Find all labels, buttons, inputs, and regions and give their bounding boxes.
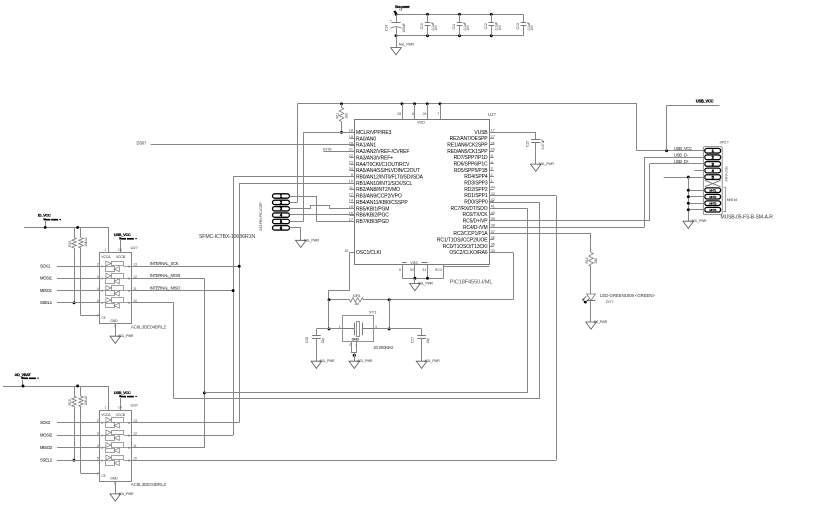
wire U3 SCK2 output	[132, 422, 240, 424]
resistor R21 1M	[350, 297, 364, 304]
svg-text:A: A	[101, 289, 103, 293]
svg-text:A: A	[101, 433, 103, 437]
svg-text:MOSI1: MOSI1	[40, 276, 53, 281]
wire U3 MISO2 output	[132, 447, 205, 449]
wire crystal pin1 vertical	[328, 300, 330, 329]
svg-text:AGL_PWR: AGL_PWR	[118, 492, 134, 496]
wire R13 to SSEL2	[74, 407, 76, 461]
svg-text:VCCB: VCCB	[116, 413, 126, 417]
node rail junctions	[395, 13, 398, 16]
svg-text:AGL_PWR: AGL_PWR	[691, 219, 707, 223]
svg-text:100uF: 100uF	[402, 23, 406, 32]
svg-text:RD2/SPP2: RD2/SPP2	[464, 187, 488, 193]
connector J1 ICSP 6-pin header	[273, 194, 290, 231]
capacitor C17 load cap right	[421, 329, 423, 335]
capacitor C10 0.1uF	[427, 14, 429, 23]
pins U1 VSS bottom stubs	[399, 261, 489, 279]
svg-text:RE1/AN6/CK2SPP: RE1/AN6/CK2SPP	[447, 143, 488, 149]
resistor R12 10K pullup	[74, 227, 76, 237]
svg-text:C10: C10	[420, 23, 424, 29]
svg-text:AC8L3DE04BRLZ: AC8L3DE04BRLZ	[131, 482, 167, 487]
wire USB D- to RC4	[644, 157, 704, 159]
wire U2 outputs INTERNAL_MISO	[132, 290, 233, 292]
ground C15	[531, 164, 542, 171]
svg-text:U3?: U3?	[131, 403, 139, 408]
connector JP2 MNT bracket	[723, 187, 725, 211]
svg-text:RD7/SPP7/P1D: RD7/SPP7/P1D	[454, 155, 488, 161]
wire R12 to SSEL1	[74, 248, 76, 303]
crystal XY1 box	[343, 316, 374, 342]
resistor R1 10k MCLR pullup	[340, 102, 343, 105]
ground U3	[115, 481, 117, 494]
svg-text:VUSB: VUSB	[474, 130, 488, 136]
wire J1 pin3 to RB5 with jog	[290, 206, 355, 209]
wire crystal pin3 vertical	[389, 300, 391, 329]
svg-text:330: 330	[594, 258, 598, 264]
pins U2 input/output numbers	[97, 263, 137, 306]
svg-text:C11: C11	[452, 23, 456, 29]
wire U2 SSEL1 output	[132, 302, 174, 304]
svg-text:3: 3	[491, 167, 493, 171]
svg-text:AGL_PWR: AGL_PWR	[357, 359, 373, 363]
svg-text:B: B	[128, 265, 130, 269]
wire J1 pin4 to RB6	[290, 214, 355, 216]
svg-text:31: 31	[422, 268, 426, 272]
svg-text:VSS: VSS	[410, 261, 418, 265]
svg-text:OSC1/CLKI: OSC1/CLKI	[356, 250, 381, 256]
svg-text:B: B	[128, 433, 130, 437]
svg-text:1M: 1M	[354, 302, 359, 306]
svg-text:OSC2/CLKO/RA6: OSC2/CLKO/RA6	[449, 250, 488, 256]
svg-text:B: B	[128, 277, 130, 281]
svg-text:6: 6	[399, 268, 401, 272]
svg-text:RD6/SPP6/P1C: RD6/SPP6/P1C	[454, 162, 488, 168]
capacitor C14 100uF polarized	[396, 14, 398, 23]
svg-text:7: 7	[437, 112, 439, 116]
svg-text:RB0/AN12/INT0/FLT0/SDI/SDA: RB0/AN12/INT0/FLT0/SDI/SDA	[356, 174, 424, 180]
svg-text:C14: C14	[384, 25, 388, 31]
svg-text:C17: C17	[410, 337, 414, 343]
svg-text:R11: R11	[336, 113, 340, 119]
ground top cap bank	[396, 36, 398, 48]
svg-text:B: B	[128, 289, 130, 293]
svg-text:OE: OE	[101, 474, 106, 478]
svg-text:SSEL1: SSEL1	[40, 300, 53, 305]
svg-text:RD3/SPP3: RD3/SPP3	[464, 181, 488, 187]
connector JP2 mount pins	[705, 188, 721, 212]
svg-text:12: 12	[349, 192, 353, 196]
svg-text:B: B	[128, 446, 130, 450]
power net USB_VCC label at connector	[666, 106, 668, 151]
wire top cap bank ground rail	[396, 35, 523, 37]
wire MOSI bus U2 to RC7	[204, 278, 206, 447]
svg-text:RC3: RC3	[435, 268, 442, 272]
node USB_VCC junction	[665, 149, 668, 152]
svg-text:MINI-USB: MINI-USB	[725, 166, 729, 182]
svg-text:10: 10	[349, 180, 353, 184]
svg-text:30: 30	[410, 268, 414, 272]
svg-text:USB_VCC: USB_VCC	[114, 232, 131, 237]
svg-text:B: B	[128, 301, 130, 305]
connector JP2 mini-USB outline	[703, 147, 722, 215]
svg-text:AGL_PWR: AGL_PWR	[399, 42, 415, 46]
svg-text:RB5/KBI1/PGM: RB5/KBI1/PGM	[356, 206, 389, 212]
svg-text:RA1/AN1: RA1/AN1	[356, 143, 376, 149]
wire USB pin5 ground net	[664, 177, 705, 179]
wires U2 input stubs	[40, 264, 100, 306]
svg-text:7: 7	[97, 314, 99, 318]
op-amp U1 PIC18F4550 microcontroller box	[355, 120, 490, 265]
svg-text:36: 36	[491, 236, 495, 240]
svg-text:12: 12	[133, 432, 137, 436]
wire U3 MOSI2 output	[132, 435, 233, 437]
svg-text:4: 4	[491, 160, 493, 164]
svg-text:DS_PWR: DS_PWR	[594, 320, 608, 324]
svg-text:RA3/AN3/VREF+: RA3/AN3/VREF+	[356, 155, 393, 161]
crystal symbol	[342, 328, 354, 330]
svg-text:10Kx2: 10Kx2	[84, 396, 88, 405]
svg-text:RB7/KBI3/PGD: RB7/KBI3/PGD	[356, 219, 389, 225]
svg-text:USB_D-: USB_D-	[674, 153, 689, 158]
svg-text:C15: C15	[526, 141, 530, 147]
svg-text:MNT3: MNT3	[709, 201, 716, 205]
svg-text:AGL_PWR: AGL_PWR	[118, 334, 134, 338]
svg-text:GND: GND	[110, 319, 118, 323]
wires U3 input stubs	[40, 420, 100, 463]
wire main VDD rail USB_VCC	[297, 103, 637, 105]
svg-text:25: 25	[491, 148, 495, 152]
svg-text:X2R1: X2R1	[352, 294, 360, 298]
svg-text:MISO2: MISO2	[40, 445, 53, 450]
svg-text:RC5/D+/VP: RC5/D+/VP	[463, 219, 489, 225]
svg-text:RC1/T1OSI/CCP2/UOE: RC1/T1OSI/CCP2/UOE	[437, 238, 488, 244]
svg-text:15p: 15p	[321, 338, 325, 344]
svg-text:GND: GND	[110, 477, 118, 481]
svg-text:PIC18F4550-I/ML: PIC18F4550-I/ML	[450, 279, 493, 285]
wire R15 to U2 OE	[80, 248, 82, 316]
op-amp U2 buffer symbols	[100, 261, 132, 308]
svg-text:7: 7	[97, 472, 99, 476]
svg-text:SSEL2: SSEL2	[40, 458, 53, 463]
svg-text:26: 26	[491, 141, 495, 145]
svg-text:20.000MHz: 20.000MHz	[374, 345, 394, 350]
svg-text:SFMC-ICTBX-106B6R1N: SFMC-ICTBX-106B6R1N	[199, 234, 255, 240]
ground crystal	[349, 361, 360, 368]
capacitor C11 0.1uF	[459, 14, 461, 23]
svg-text:38: 38	[491, 224, 495, 228]
op-amp U2 level shifter box	[100, 253, 132, 324]
svg-text:SCK1: SCK1	[40, 264, 51, 269]
svg-text:MCLR/VPP/RE3: MCLR/VPP/RE3	[356, 130, 392, 136]
svg-text:U1?: U1?	[488, 112, 496, 117]
svg-text:RD5/SPP5/P1B: RD5/SPP5/P1B	[454, 168, 488, 174]
svg-text:AGL_PWR: AGL_PWR	[304, 238, 320, 242]
wire RC2 to LED resistor	[489, 233, 591, 235]
svg-text:5: 5	[491, 154, 493, 158]
wire R16 to U3 OE	[80, 407, 82, 474]
svg-text:40: 40	[491, 211, 495, 215]
wire RA2 net INTB	[324, 151, 355, 153]
svg-text:DS0?: DS0?	[137, 141, 148, 146]
svg-text:MNTx4: MNTx4	[727, 198, 737, 202]
svg-text:A: A	[101, 446, 103, 450]
wire RB0 SDI bus	[233, 176, 354, 178]
wire rail drop to USB connector pin1	[636, 104, 638, 151]
wire OSC2 to crystal rail	[489, 252, 513, 254]
svg-text:15p: 15p	[426, 338, 430, 344]
wire top cap bank rail VBUS	[396, 14, 523, 16]
wire J1 pin6 to ground	[290, 227, 301, 229]
svg-text:A: A	[101, 421, 103, 425]
svg-text:VCCA: VCCA	[101, 413, 111, 417]
svg-text:R13: R13	[68, 399, 72, 405]
wire ID_VCC rail	[24, 227, 109, 229]
resistor R13 10K pullup	[74, 386, 76, 396]
svg-text:1: 1	[491, 179, 493, 183]
svg-text:AGL_PWR: AGL_PWR	[418, 282, 434, 286]
wire OSC1 dogleg	[329, 253, 350, 300]
wire MCLR to J1 pin5	[304, 132, 355, 134]
wire USB D+ to RC5	[650, 163, 705, 165]
svg-text:RC6/TX/CK: RC6/TX/CK	[462, 212, 488, 218]
svg-text:U2?: U2?	[131, 245, 139, 250]
wire USB_VCC to U2 VCCB	[120, 247, 122, 253]
svg-text:OE: OE	[101, 316, 106, 320]
svg-text:R14: R14	[585, 257, 589, 263]
svg-text:10k: 10k	[345, 113, 349, 119]
svg-text:22: 22	[349, 154, 353, 158]
svg-text:XY1: XY1	[369, 309, 377, 314]
svg-text:A: A	[101, 277, 103, 281]
svg-text:MUSB-05-FS-B-SM-A-R: MUSB-05-FS-B-SM-A-R	[721, 214, 774, 220]
svg-text:AC8L3DE04BRLZ: AC8L3DE04BRLZ	[131, 324, 167, 329]
svg-text:44: 44	[491, 186, 495, 190]
connector JP2 shield cross	[705, 180, 721, 187]
connector JP2 signal pins	[705, 148, 721, 179]
svg-text:32: 32	[344, 249, 348, 253]
svg-text:35: 35	[491, 243, 495, 247]
svg-text:GND: GND	[352, 338, 360, 342]
svg-text:D1?: D1?	[606, 299, 614, 304]
svg-text:AD_VBAT: AD_VBAT	[15, 372, 32, 377]
wire AD_VBAT rail	[3, 386, 109, 388]
ground U1 VSS	[414, 278, 416, 283]
svg-text:C12: C12	[484, 23, 488, 29]
ground LED	[586, 322, 597, 329]
svg-text:2: 2	[491, 173, 493, 177]
svg-text:0.47uF: 0.47uF	[541, 139, 545, 149]
svg-text:RC0/T1OSO/T13CKI: RC0/T1OSO/T13CKI	[443, 244, 488, 250]
svg-text:RB6/KBI2/PGC: RB6/KBI2/PGC	[356, 213, 389, 219]
resistor R14 330	[589, 253, 593, 267]
op-amp U3 buffer symbols	[100, 417, 132, 465]
svg-text:MOSI2: MOSI2	[40, 432, 53, 437]
svg-text:RB4/AN11/KBI0/CSSPP: RB4/AN11/KBI0/CSSPP	[356, 200, 408, 206]
wire J1 pin1 to RB7	[290, 196, 317, 198]
pins U3 input/output numbers	[97, 419, 137, 463]
capacitor C12 0.1uF	[491, 14, 493, 23]
svg-text:RD1/SPP1: RD1/SPP1	[464, 193, 488, 199]
wire crystal pin3 connection	[373, 389, 375, 391]
wire crystal pin1 connection	[329, 328, 342, 330]
svg-text:26: 26	[423, 112, 427, 116]
LED D1 green	[587, 294, 596, 301]
svg-text:B: B	[128, 421, 130, 425]
svg-text:1: 1	[104, 248, 106, 252]
svg-text:RE2/AN7/OESPP: RE2/AN7/OESPP	[450, 136, 489, 142]
op-amp U3 level shifter box	[100, 411, 132, 482]
svg-text:R12: R12	[68, 241, 72, 247]
svg-text:RA0/AN0: RA0/AN0	[356, 136, 376, 142]
svg-text:42: 42	[491, 198, 495, 202]
svg-text:10Kx2: 10Kx2	[84, 237, 88, 246]
resistor R16 10K pullup	[80, 386, 82, 396]
svg-text:INTERNAL_SCK: INTERNAL_SCK	[150, 261, 179, 266]
wire SSEL1 U2 to RD0	[173, 303, 175, 399]
svg-text:MNT4: MNT4	[709, 208, 716, 212]
svg-text:USB_VCC: USB_VCC	[696, 99, 714, 104]
svg-text:14: 14	[118, 248, 122, 252]
wire ID_VCC to U2 VCCA	[108, 227, 110, 252]
svg-text:RA2/AN2/VREF-/CVREF: RA2/AN2/VREF-/CVREF	[356, 149, 409, 155]
wire U2 outputs INTERNAL_SCK	[132, 266, 240, 268]
svg-text:1NTB: 1NTB	[323, 148, 333, 152]
ground USB shield	[683, 221, 694, 228]
wire SSEL2 U3 to RD1	[132, 460, 556, 462]
svg-text:11: 11	[349, 186, 353, 190]
svg-text:AGL_PWR: AGL_PWR	[539, 162, 555, 166]
svg-text:RD0/SPP0: RD0/SPP0	[464, 200, 488, 206]
svg-text:Bus power: Bus power	[395, 5, 410, 9]
svg-text:RC7/RX/DT/SDO: RC7/RX/DT/SDO	[450, 206, 487, 212]
wire USB pin4 stub	[694, 170, 705, 172]
ground U2	[115, 323, 117, 336]
svg-text:INTERNAL_MISO: INTERNAL_MISO	[150, 285, 181, 290]
svg-text:RB1/AN10/INT1/SCK/SCL: RB1/AN10/INT1/SCK/SCL	[356, 181, 412, 187]
wire RB1 SCK bus	[239, 183, 354, 185]
svg-text:RB3/AN9/CCP2/VPO: RB3/AN9/CCP2/VPO	[356, 194, 402, 200]
svg-text:RA4/T0CKI/C1OUT/RCV: RA4/T0CKI/C1OUT/RCV	[356, 162, 410, 168]
svg-text:RC2/CCP1/P1A: RC2/CCP1/P1A	[453, 231, 488, 237]
resistor R15 10K pullup	[80, 227, 82, 237]
svg-text:2X3 PIN PIC-ICSP: 2X3 PIN PIC-ICSP	[259, 202, 263, 231]
svg-text:RE0/AN5/CK1SPP: RE0/AN5/CK1SPP	[447, 149, 488, 155]
ground C17	[416, 361, 427, 368]
capacitor C16 load cap left	[316, 329, 318, 335]
svg-text:AGL_PWR: AGL_PWR	[424, 359, 440, 363]
svg-text:5V: 5V	[399, 8, 403, 12]
ground C16	[311, 361, 322, 368]
svg-text:JP2?: JP2?	[720, 139, 730, 144]
svg-text:VDD: VDD	[417, 121, 425, 125]
pins U1 left side labels and numbers	[344, 129, 423, 257]
svg-text:14: 14	[118, 406, 122, 410]
capacitor C15 0.47uF	[535, 132, 537, 140]
node MCLR junction	[340, 131, 343, 134]
svg-text:A: A	[101, 459, 103, 463]
svg-text:RA5/AN4/SS/HLVDIN/C2OUT: RA5/AN4/SS/HLVDIN/C2OUT	[356, 168, 420, 174]
svg-text:19: 19	[349, 135, 353, 139]
capacitor C13 0.1uF	[523, 14, 525, 23]
svg-text:23: 23	[349, 160, 353, 164]
pins U1 right side labels and numbers	[437, 129, 495, 257]
svg-text:USB_VCC: USB_VCC	[674, 146, 692, 151]
wire VUSB to C15	[489, 132, 536, 134]
wire AD_VBAT to U3 VCCA	[108, 386, 110, 411]
svg-text:41: 41	[491, 205, 495, 209]
wire VDD rail to J1 pin2	[297, 104, 299, 203]
svg-text:A: A	[101, 265, 103, 269]
svg-text:MNT2: MNT2	[709, 195, 716, 199]
svg-text:MNT1: MNT1	[709, 188, 716, 192]
wire U2 outputs INTERNAL_MOSI	[132, 278, 205, 280]
svg-text:VCCA: VCCA	[101, 255, 111, 259]
svg-text:27: 27	[491, 135, 495, 139]
svg-text:A: A	[101, 301, 103, 305]
svg-text:AGL_PWR: AGL_PWR	[319, 359, 335, 363]
svg-text:C16: C16	[305, 337, 309, 343]
wires USB mount pins to ground	[687, 189, 705, 211]
svg-text:RC4/D-/VM: RC4/D-/VM	[463, 225, 487, 231]
svg-text:MISO1: MISO1	[40, 288, 53, 293]
wire crystal rail	[329, 299, 513, 301]
svg-text:28: 28	[397, 112, 401, 116]
svg-text:INTERNAL_MOSI: INTERNAL_MOSI	[150, 273, 180, 278]
svg-text:14: 14	[349, 199, 353, 203]
svg-text:1: 1	[104, 406, 106, 410]
svg-text:3: 3	[97, 432, 99, 436]
ground J1	[296, 240, 307, 247]
svg-text:RD4/SPP4: RD4/SPP4	[464, 174, 488, 180]
svg-text:USB_VCC: USB_VCC	[114, 390, 131, 395]
svg-text:RB2/AN8/INT2/VMO: RB2/AN8/INT2/VMO	[356, 187, 400, 193]
pins U1 VDD top stubs	[397, 102, 441, 124]
wire USB_VCC to U3 VCCB	[120, 404, 122, 410]
svg-text:24: 24	[349, 167, 353, 171]
svg-text:VCCB: VCCB	[116, 255, 126, 259]
svg-text:ID_VCC: ID_VCC	[38, 213, 51, 218]
svg-text:LED-GREEN1608 <GREEN>: LED-GREEN1608 <GREEN>	[600, 293, 655, 298]
svg-text:8: 8	[412, 112, 414, 116]
svg-text:C13: C13	[516, 23, 520, 29]
svg-text:SCK2: SCK2	[40, 420, 51, 425]
svg-text:B: B	[128, 459, 130, 463]
